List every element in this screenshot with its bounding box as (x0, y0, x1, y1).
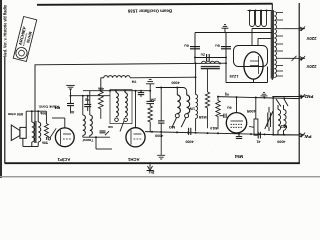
svg-text:220V: 220V (306, 36, 316, 41)
svg-text:MG: MG (169, 125, 175, 130)
svg-text:PW: PW (304, 134, 312, 139)
svg-text:41: 41 (256, 139, 260, 143)
svg-text:2M: 2M (151, 97, 156, 101)
svg-text:800 ohm: 800 ohm (7, 112, 23, 116)
svg-text:M1B: M1B (198, 115, 206, 119)
svg-text:ng: ng (225, 93, 229, 97)
svg-text:50k: 50k (40, 111, 46, 115)
svg-text:AC/P1: AC/P1 (57, 157, 70, 162)
svg-text:M10: M10 (210, 126, 217, 130)
svg-text:6u: 6u (227, 105, 232, 109)
svg-text:400R: 400R (246, 109, 255, 113)
svg-text:PM: PM (55, 105, 61, 109)
svg-text:Ned. Ver. v. Historie v/d Radi: Ned. Ver. v. Historie v/d Radio (2, 5, 7, 57)
svg-text:4000: 4000 (155, 134, 163, 138)
svg-text:4M: 4M (69, 110, 74, 114)
svg-text:1Z25: 1Z25 (229, 74, 239, 79)
svg-text:50k: 50k (42, 141, 48, 145)
svg-text:ACH1: ACH1 (127, 157, 139, 162)
svg-text:2u: 2u (200, 52, 205, 56)
svg-text:MG: MG (281, 124, 288, 129)
svg-text:PM2: PM2 (304, 94, 313, 99)
svg-text:PU: PU (149, 170, 155, 175)
svg-text:1W: 1W (189, 107, 195, 111)
svg-text:4000: 4000 (185, 139, 193, 143)
svg-text:MB: MB (107, 125, 112, 129)
svg-text:6u: 6u (215, 44, 220, 49)
svg-text:4000: 4000 (277, 140, 285, 144)
svg-text:6u: 6u (184, 44, 189, 49)
svg-text:Beam Oscillator 1538: Beam Oscillator 1538 (128, 8, 172, 13)
svg-text:M54: M54 (234, 154, 243, 159)
svg-text:Transf: Transf (82, 138, 93, 142)
svg-text:220V: 220V (306, 64, 316, 69)
svg-text:4000: 4000 (171, 81, 179, 85)
svg-text:7H: 7H (132, 79, 137, 84)
